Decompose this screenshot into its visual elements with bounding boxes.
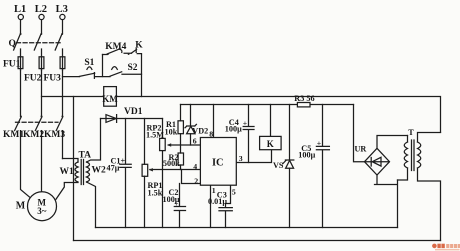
svg-text:5: 5	[232, 188, 236, 197]
svg-text:Q: Q	[9, 39, 16, 49]
svg-text:+: +	[174, 199, 179, 208]
svg-text:+: +	[317, 139, 322, 148]
svg-text:L3: L3	[56, 4, 68, 15]
svg-text:KM1: KM1	[3, 130, 24, 140]
svg-text:100μ: 100μ	[225, 125, 242, 134]
svg-text:4: 4	[193, 162, 197, 171]
svg-text:R3 56: R3 56	[294, 94, 314, 103]
svg-text:TA: TA	[79, 151, 92, 161]
svg-text:2: 2	[194, 176, 198, 185]
svg-text:L1: L1	[14, 4, 26, 15]
svg-text:M: M	[16, 201, 26, 212]
svg-text:VD1: VD1	[124, 107, 143, 117]
svg-text:W2: W2	[92, 166, 107, 176]
svg-text:KM3: KM3	[44, 130, 65, 140]
svg-text:1.5k: 1.5k	[148, 189, 163, 198]
svg-text:0.01μ: 0.01μ	[208, 197, 227, 206]
svg-text:FU2: FU2	[24, 74, 42, 84]
svg-text:VD2: VD2	[192, 127, 208, 136]
svg-text:T: T	[408, 128, 414, 137]
svg-text:W1: W1	[60, 167, 75, 177]
svg-text:KM4: KM4	[105, 42, 126, 52]
svg-text:IC: IC	[212, 158, 224, 169]
svg-text:500k: 500k	[163, 159, 180, 168]
svg-text:FU3: FU3	[44, 74, 62, 84]
svg-text:100μ: 100μ	[298, 151, 315, 160]
svg-text:1.5M: 1.5M	[146, 131, 164, 140]
svg-text:1: 1	[212, 186, 216, 195]
svg-text:UR: UR	[355, 145, 367, 154]
svg-text:K: K	[135, 41, 143, 51]
svg-text:6: 6	[193, 137, 197, 146]
svg-text:3~: 3~	[37, 206, 47, 216]
svg-text:KM: KM	[102, 94, 118, 104]
svg-text:+: +	[243, 119, 248, 128]
svg-text:K: K	[267, 139, 274, 149]
svg-text:8: 8	[209, 129, 213, 138]
svg-text:VS: VS	[273, 161, 284, 170]
svg-text:10k: 10k	[165, 128, 178, 137]
svg-text:S1: S1	[84, 58, 94, 68]
svg-text:KM2: KM2	[23, 130, 44, 140]
svg-text:L2: L2	[35, 4, 47, 15]
svg-text:3: 3	[239, 154, 243, 163]
svg-text:FU1: FU1	[3, 60, 21, 70]
svg-text:47μ: 47μ	[107, 164, 120, 173]
svg-text:S2: S2	[128, 63, 138, 73]
